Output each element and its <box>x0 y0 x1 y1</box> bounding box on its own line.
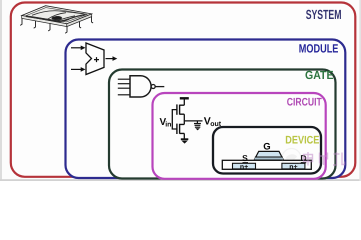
nmos Q2 <box>177 124 184 134</box>
svg-text:MODULE: MODULE <box>299 41 339 55</box>
capacitor CL <box>194 121 201 125</box>
watermark characters <box>304 152 345 166</box>
adder output arrow <box>106 56 118 61</box>
mosfet gate stack <box>254 151 283 160</box>
label Vout <box>204 115 222 128</box>
system boundary <box>11 3 356 177</box>
ground GND2 <box>195 127 200 130</box>
input gate wire <box>172 110 177 129</box>
device boundary <box>213 127 321 174</box>
wire vdd to pmos <box>183 98 185 105</box>
chip legs <box>20 17 93 34</box>
module boundary <box>66 40 346 179</box>
nand gate G1 bubble <box>151 85 155 89</box>
terminal S <box>242 153 248 163</box>
gate boundary <box>109 70 336 179</box>
vdd rail <box>180 97 189 99</box>
wire pmos to output <box>183 114 185 121</box>
adder A1 <box>86 43 104 75</box>
pmos Q1 <box>177 104 184 114</box>
nand gate G1 inputs <box>118 79 130 95</box>
node Vout wire <box>184 120 202 122</box>
n+ region left <box>233 163 256 171</box>
chip bond wires <box>26 11 86 21</box>
n+ region right <box>282 163 305 171</box>
svg-text:CIRCUIT: CIRCUIT <box>287 97 322 109</box>
wire nmos to ground <box>183 133 185 138</box>
adder input arrow bottom <box>71 67 86 72</box>
label Vin <box>160 117 172 129</box>
chip package U1 <box>22 6 92 27</box>
svg-text:n+: n+ <box>240 164 248 171</box>
svg-text:S: S <box>242 153 248 163</box>
circuit boundary <box>153 93 326 179</box>
nand gate G1 output wire <box>155 86 164 88</box>
watermark stamp <box>282 149 301 168</box>
svg-text:GATE: GATE <box>305 68 334 82</box>
adder input arrow top <box>71 46 86 51</box>
svg-text:SYSTEM: SYSTEM <box>306 7 342 22</box>
svg-text:in: in <box>165 120 171 128</box>
nand gate G1 body <box>130 76 151 97</box>
svg-text:G: G <box>263 141 270 152</box>
svg-text:DEVICE: DEVICE <box>285 135 319 147</box>
wire output to nmos <box>183 121 185 125</box>
terminal D <box>300 153 306 163</box>
mosfet substrate <box>222 160 311 169</box>
ground GND1 <box>181 139 189 143</box>
